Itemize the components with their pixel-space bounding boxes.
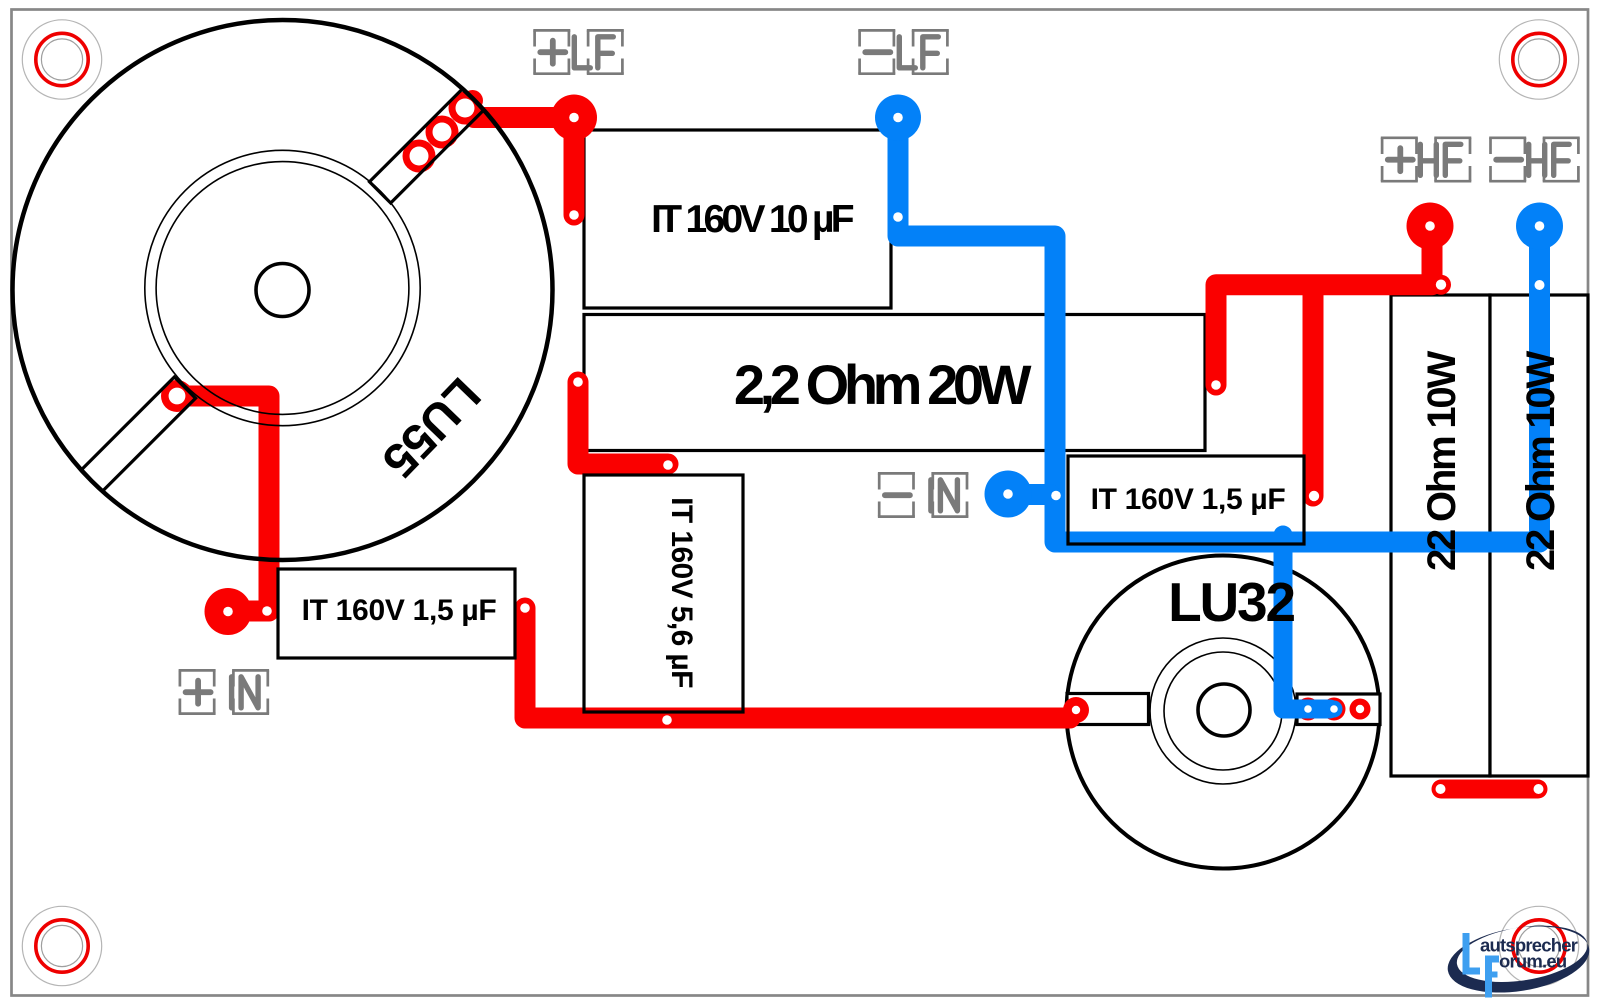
capacitor C3 IT 160V 1,5uF box (right) [1068,456,1304,544]
capacitor C4 IT 160V 5,6uF box [584,475,743,712]
pad -LF [875,95,921,141]
resistor R3 22 Ohm 10W box [1490,295,1588,776]
mounting hole M2 [1499,20,1578,99]
LautsprecherForum.eu logo [1443,917,1594,1002]
svg-text:22 Ohm 10W: 22 Ohm 10W [1420,351,1464,572]
wire -IN pad stub [1008,484,1050,505]
capacitor C2 IT 160V 1,5uF box (left) [278,569,515,658]
pad label +LF [533,30,624,73]
wire -LF pad to C1 right lead, -IN node, R3, LU32 [898,118,1540,543]
resistor R1 2,2 Ohm 20W box [584,315,1205,451]
pad label +HF [1381,138,1472,181]
LU55 bottom bar pad [161,380,193,412]
pad label -HF [1489,138,1580,181]
wire +HF pad to R1 right lead, R2 top lead, C3 right lead [1216,228,1432,496]
drill holes [169,99,1545,795]
wire R2/R3 bottom link bar [1441,780,1538,799]
pad -IN [985,471,1032,518]
svg-text:orum.eu: orum.eu [1499,951,1567,972]
LU32 right bar blue pads [1300,701,1317,718]
wire R1 left lead to C4 top lead [578,382,668,464]
svg-text:22 Ohm 10W: 22 Ohm 10W [1519,351,1563,572]
wire LU55 bottom pad to +IN node [177,396,269,611]
wire LU55 top to +LF pad and C1 left lead [474,118,574,216]
mounting hole M1 [22,20,101,99]
inductor LU32 [1067,556,1381,869]
svg-text:2,2 Ohm 20W: 2,2 Ohm 20W [734,353,1032,416]
pad label -LF [858,30,949,73]
wire C2 right lead down to LU32 left pad (node +IN net) [525,608,1070,718]
svg-text:IT 160V 10 µF: IT 160V 10 µF [651,198,854,241]
inductor LU55 lead bar fills [81,88,484,491]
LU32 right bar pads (red rings) [1297,698,1320,721]
LU32 left bar pad [1063,697,1089,723]
svg-text:LU32: LU32 [1168,571,1294,633]
capacitor C1 IT 160V 10uF box [584,130,891,308]
mounting hole M3 [22,906,101,985]
LU55 top bar pads [403,140,436,173]
pad -HF [1516,203,1563,250]
pad +HF [1407,203,1454,250]
wire down to LU32 right bar [1283,535,1330,709]
pad label +IN [179,670,270,713]
pad +IN [205,588,252,635]
svg-text:IT 160V 1,5 µF: IT 160V 1,5 µF [1091,483,1286,516]
mounting hole M4 [1499,906,1578,985]
pad +LF [551,95,597,141]
resistor R2 22 Ohm 10W box [1391,295,1490,776]
pad label -IN [878,473,969,516]
inductor LU55 outline [13,20,553,560]
svg-text:IT 160V 1,5 µF: IT 160V 1,5 µF [302,594,497,627]
svg-text:IT 160V 5,6 µF: IT 160V 5,6 µF [665,497,698,688]
